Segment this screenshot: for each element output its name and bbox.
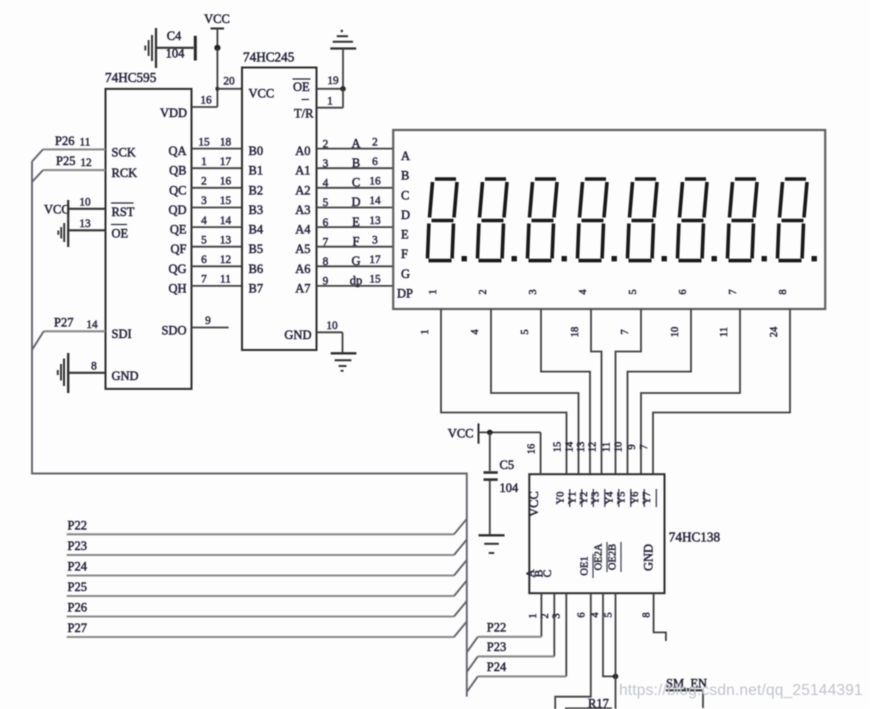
svg-text:E: E	[401, 228, 409, 242]
wire U1 QC to U2 B2	[192, 176, 243, 188]
svg-text:Y6: Y6	[630, 492, 641, 505]
net P22 (bus run)	[67, 519, 467, 535]
svg-text:SCK: SCK	[112, 146, 136, 160]
svg-text:P23: P23	[487, 640, 506, 654]
svg-text:3: 3	[201, 195, 207, 207]
wire display digit 4 to U3 Y3	[591, 309, 602, 474]
svg-text:OE2B: OE2B	[608, 544, 619, 570]
svg-text:A3: A3	[295, 203, 310, 217]
svg-text:10: 10	[670, 327, 681, 338]
svg-text:C4: C4	[167, 29, 182, 43]
svg-text:Y0: Y0	[556, 492, 567, 505]
svg-text:SDI: SDI	[112, 327, 132, 341]
wire display digit 8 to U3 Y7	[653, 309, 790, 474]
svg-text:P22: P22	[487, 621, 506, 635]
ground (U1 GND pin 8)	[58, 353, 106, 393]
svg-text:GND: GND	[284, 328, 311, 342]
wire U3 GND pin 8	[642, 593, 666, 641]
svg-text:QA: QA	[168, 144, 186, 158]
svg-text:A: A	[351, 136, 360, 150]
svg-text:A0: A0	[295, 144, 310, 158]
svg-text:QE: QE	[170, 223, 187, 237]
svg-text:12: 12	[80, 157, 92, 169]
svg-text:16: 16	[369, 176, 381, 188]
svg-text:A7: A7	[295, 281, 310, 295]
wire U1 QE to U2 B4	[192, 215, 243, 227]
digit 8 segments	[778, 179, 817, 261]
svg-text:R17: R17	[588, 697, 609, 709]
svg-text:5: 5	[323, 197, 329, 209]
svg-text:D: D	[401, 208, 410, 222]
svg-text:16: 16	[200, 95, 212, 107]
svg-text:9: 9	[323, 276, 329, 288]
svg-text:QF: QF	[171, 242, 187, 256]
wire U3 OE2A pin 4	[590, 593, 618, 679]
svg-text:1: 1	[528, 613, 539, 618]
svg-text:B: B	[352, 156, 360, 170]
wire U2 pin 20	[215, 76, 242, 91]
svg-text:13: 13	[369, 215, 381, 227]
svg-text:17: 17	[369, 254, 381, 266]
svg-text:7: 7	[620, 329, 631, 334]
capacitor C4	[156, 29, 197, 61]
svg-text:G: G	[401, 267, 410, 281]
svg-text:15: 15	[369, 274, 381, 286]
svg-text:9: 9	[205, 315, 211, 327]
IC U3 74HC138	[525, 474, 720, 593]
net SM_EN	[666, 677, 707, 709]
resistor R17	[565, 697, 612, 709]
svg-text:19: 19	[327, 75, 339, 87]
svg-text:C: C	[401, 188, 409, 202]
svg-text:3: 3	[372, 234, 378, 246]
power flag VCC (U3 pin 16)	[448, 423, 541, 443]
net P26 (bus run)	[67, 601, 467, 617]
svg-text:VCC: VCC	[448, 427, 474, 441]
wire U3 A pin 1 stub	[528, 593, 541, 637]
svg-text:P24: P24	[487, 660, 507, 674]
svg-text:B6: B6	[249, 262, 264, 276]
svg-text:8: 8	[642, 612, 653, 617]
svg-text:11: 11	[719, 327, 730, 337]
svg-text:B2: B2	[249, 183, 264, 197]
wire U1 QD to U2 B3	[192, 195, 243, 207]
svg-text:20: 20	[223, 76, 235, 88]
svg-text:5: 5	[628, 289, 639, 294]
svg-text:7: 7	[728, 289, 739, 294]
svg-text:1: 1	[201, 156, 207, 168]
wire U2 A5 to display F	[317, 234, 394, 248]
inverted ground (U2 OE/TR)	[330, 30, 356, 89]
svg-text:B7: B7	[249, 281, 264, 295]
node VCC junction	[214, 45, 220, 51]
wire U1 QA to U2 B0	[192, 136, 243, 148]
svg-text:74HC595: 74HC595	[105, 70, 157, 85]
net P25 (bus run)	[67, 580, 467, 596]
svg-text:14: 14	[369, 195, 381, 207]
svg-text:6: 6	[577, 612, 588, 617]
svg-text:P22: P22	[68, 519, 87, 533]
svg-text:7: 7	[201, 274, 207, 286]
svg-text:11: 11	[220, 274, 231, 286]
wire VCC rail down	[216, 48, 218, 107]
wire U1 QH to U2 B7	[192, 274, 243, 286]
wire U3 OE1 pin 6	[555, 593, 591, 709]
svg-text:D: D	[351, 195, 360, 209]
wire U2 A6 to display G	[317, 254, 394, 268]
svg-text:dp: dp	[350, 274, 363, 288]
svg-text:6: 6	[678, 289, 689, 294]
svg-text:RST: RST	[112, 205, 135, 219]
svg-text:3: 3	[323, 158, 329, 170]
svg-text:2: 2	[201, 176, 207, 188]
svg-text:18: 18	[220, 136, 232, 148]
digit 3 segments	[528, 179, 567, 261]
svg-text:OE: OE	[293, 80, 310, 94]
svg-text:B5: B5	[249, 242, 264, 256]
wire U1 QF to U2 B5	[192, 234, 243, 246]
svg-text:GND: GND	[112, 369, 139, 383]
svg-text:14: 14	[565, 441, 576, 452]
ground (C5)	[479, 535, 505, 553]
wire U2 T/R pin 1	[317, 89, 344, 108]
svg-text:15: 15	[220, 195, 232, 207]
svg-text:OE1: OE1	[580, 556, 591, 575]
svg-text:Y2: Y2	[579, 492, 590, 505]
ground (C4 left)	[145, 28, 156, 68]
wire U1 VDD pin 16	[192, 95, 218, 108]
digit 2 segments	[478, 179, 517, 261]
svg-text:VCC: VCC	[204, 12, 230, 26]
wire U3 C pin 3 stub	[552, 593, 567, 676]
svg-text:11: 11	[602, 442, 613, 452]
svg-text:VCC: VCC	[527, 491, 541, 517]
svg-text:A6: A6	[295, 262, 310, 276]
svg-text:B0: B0	[249, 144, 264, 158]
net P27 (bus run)	[67, 621, 467, 637]
svg-text:VCC: VCC	[249, 87, 275, 101]
svg-text:13: 13	[79, 218, 91, 230]
digit 5 segments	[628, 179, 667, 261]
svg-text:G: G	[351, 254, 360, 268]
wire U2 A1 to display B	[317, 156, 394, 170]
svg-text:QB: QB	[169, 164, 186, 178]
IC U1 74HC595	[105, 70, 192, 389]
svg-text:2: 2	[323, 138, 329, 150]
wire display digit 3 to U3 Y2	[541, 309, 590, 474]
svg-text:12: 12	[588, 442, 599, 453]
svg-text:74HC138: 74HC138	[669, 530, 721, 545]
net P24 (bus run)	[67, 560, 467, 576]
svg-text:2: 2	[540, 613, 551, 618]
digit 7 segments	[728, 179, 767, 261]
svg-text:6: 6	[201, 254, 207, 266]
svg-text:B: B	[401, 169, 409, 183]
svg-text:24: 24	[769, 326, 780, 337]
svg-text:F: F	[353, 234, 360, 248]
svg-text:VCC: VCC	[44, 203, 70, 217]
svg-text:74HC245: 74HC245	[243, 50, 295, 65]
wire U2 A7 to display dp	[317, 274, 394, 288]
svg-text:DP: DP	[397, 286, 413, 300]
wire display digit 2 to U3 Y1	[491, 309, 579, 474]
svg-text:Y4: Y4	[605, 491, 616, 505]
svg-text:B1: B1	[249, 164, 264, 178]
svg-text:E: E	[352, 215, 360, 229]
svg-text:https://blog.csdn.net/qq_25144: https://blog.csdn.net/qq_25144391	[619, 682, 863, 699]
svg-text:4: 4	[323, 178, 329, 190]
svg-text:P24: P24	[68, 560, 88, 574]
svg-text:F: F	[401, 247, 408, 261]
wire display digit 7 to U3 Y6	[641, 309, 740, 474]
svg-text:16: 16	[220, 176, 232, 188]
wire U1 QB to U2 B1	[192, 156, 243, 168]
svg-text:2: 2	[478, 289, 489, 294]
svg-text:B3: B3	[249, 203, 264, 217]
svg-text:P25: P25	[56, 154, 75, 168]
svg-text:A: A	[401, 149, 410, 163]
wire U1 SDO pin 9 stub	[192, 315, 229, 328]
svg-text:5: 5	[201, 234, 207, 246]
svg-text:5: 5	[520, 329, 531, 334]
svg-text:16: 16	[527, 444, 538, 455]
net P26 / U1 pin 11 (SCK)	[32, 134, 106, 162]
wire U3 OE2B pin 5	[604, 593, 616, 709]
svg-text:T/R: T/R	[294, 107, 314, 121]
wire U2 A2 to display C	[317, 176, 394, 190]
svg-text:QG: QG	[168, 262, 186, 276]
svg-text:12: 12	[220, 254, 232, 266]
svg-text:OE: OE	[112, 227, 129, 241]
svg-text:7: 7	[323, 236, 329, 248]
svg-text:VDD: VDD	[160, 106, 187, 120]
svg-text:10: 10	[614, 442, 625, 453]
svg-text:C: C	[352, 176, 360, 190]
svg-text:C5: C5	[500, 458, 515, 472]
svg-text:15: 15	[198, 136, 210, 148]
svg-text:P27: P27	[54, 316, 73, 330]
svg-text:QH: QH	[168, 281, 186, 295]
svg-text:GND: GND	[642, 544, 656, 571]
digit 6 segments	[678, 179, 717, 261]
svg-text:6: 6	[323, 217, 329, 229]
wire display digit 6 to U3 Y5	[628, 309, 692, 474]
svg-text:5: 5	[604, 612, 615, 617]
wire display digit 5 to U3 Y4	[616, 309, 642, 474]
wire U3 VCC pin 16 stub	[527, 432, 541, 474]
svg-text:4: 4	[201, 215, 207, 227]
svg-text:4: 4	[470, 329, 481, 335]
net P22 to U3	[467, 621, 542, 653]
svg-text:A2: A2	[295, 183, 310, 197]
svg-text:P23: P23	[68, 539, 87, 553]
wire U2 GND pin 10 + ground	[317, 320, 357, 371]
digit 4 segments	[578, 179, 617, 261]
svg-text:P26: P26	[55, 134, 74, 148]
svg-text:A1: A1	[295, 164, 310, 178]
svg-text:104: 104	[500, 481, 520, 495]
net P27 / U1 pin 14 (SDI)	[32, 316, 106, 350]
net P24 to U3	[467, 660, 567, 692]
wire U2 OE pin 19	[317, 75, 346, 92]
wire U1 QG to U2 B6	[192, 254, 243, 266]
svg-text:A4: A4	[295, 223, 311, 237]
wire U2 A4 to display E	[317, 215, 394, 229]
svg-text:QC: QC	[169, 183, 186, 197]
svg-text:SDO: SDO	[161, 324, 186, 338]
svg-text:11: 11	[80, 137, 91, 149]
svg-text:A5: A5	[295, 242, 310, 256]
wire U2 A0 to display A	[317, 136, 394, 150]
display DS1 8-digit 7-segment	[393, 130, 825, 309]
svg-text:4: 4	[590, 612, 601, 618]
svg-text:C: C	[542, 569, 554, 577]
svg-text:9: 9	[627, 444, 638, 449]
net P23 (bus run)	[67, 539, 467, 555]
svg-text:3: 3	[552, 613, 563, 618]
svg-text:P26: P26	[68, 601, 87, 615]
bus wire (left vertical + across + right vertical)	[32, 162, 467, 697]
svg-text:1: 1	[428, 289, 439, 294]
svg-text:8: 8	[323, 256, 329, 268]
svg-text:Y7: Y7	[642, 492, 653, 505]
svg-text:Y3: Y3	[591, 492, 602, 505]
net P23 to U3	[467, 640, 555, 672]
svg-text:8: 8	[778, 289, 789, 294]
svg-text:1: 1	[327, 96, 333, 108]
svg-text:18: 18	[570, 327, 581, 338]
svg-text:8: 8	[91, 361, 97, 373]
capacitor C5	[484, 432, 520, 534]
svg-text:13: 13	[220, 234, 232, 246]
digit 1 segments	[428, 179, 467, 261]
svg-text:15: 15	[553, 442, 564, 453]
wire U2 A3 to display D	[317, 195, 394, 209]
power flag VCC (U1 RST pin 10)	[44, 197, 106, 219]
svg-text:7: 7	[639, 444, 650, 449]
power flag VCC (top)	[204, 12, 230, 48]
svg-text:P25: P25	[68, 580, 87, 594]
svg-text:14: 14	[86, 319, 98, 331]
wire U3 B pin 2 stub	[540, 593, 554, 656]
svg-text:QD: QD	[168, 203, 186, 217]
net P25 / U1 pin 12 (RCK)	[32, 154, 106, 182]
svg-text:6: 6	[372, 156, 378, 168]
svg-text:3: 3	[528, 289, 539, 294]
svg-text:Y1: Y1	[568, 492, 579, 505]
svg-text:P27: P27	[68, 621, 87, 635]
svg-text:2: 2	[372, 136, 378, 148]
svg-text:4: 4	[578, 289, 589, 295]
svg-text:RCK: RCK	[112, 166, 138, 180]
svg-text:10: 10	[79, 197, 91, 209]
svg-text:17: 17	[220, 156, 232, 168]
svg-text:B4: B4	[249, 223, 264, 237]
IC U2 74HC245	[242, 50, 317, 351]
svg-text:Y5: Y5	[617, 492, 628, 505]
svg-text:14: 14	[220, 215, 232, 227]
svg-text:10: 10	[326, 320, 338, 332]
wire display digit 1 to U3 Y0	[441, 309, 567, 474]
ground (U1 OE pin 13)	[58, 218, 105, 247]
svg-text:OE2A: OE2A	[594, 543, 605, 570]
svg-text:1: 1	[420, 329, 431, 334]
svg-text:13: 13	[576, 442, 587, 453]
